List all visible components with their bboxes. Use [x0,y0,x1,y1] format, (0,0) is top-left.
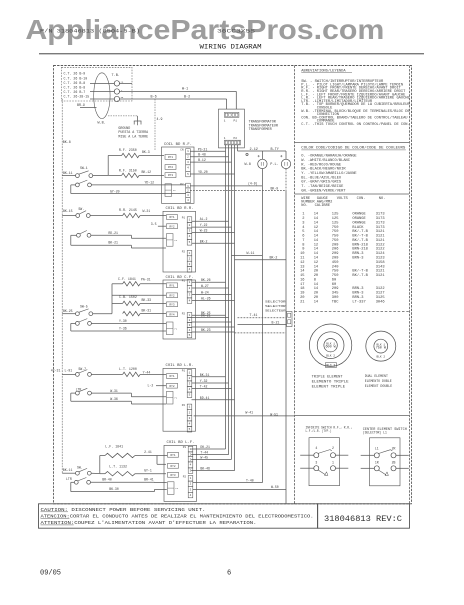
wire L2 feed B-2 [90,98,115,100]
legend panel inner right border [409,66,411,504]
svg-text:RY2: RY2 [169,294,174,297]
svg-text:8: 8 [302,243,304,247]
svg-text:C.T. 26 B-10: C.T. 26 B-10 [64,76,88,80]
wire BR-9 to ellipse [80,107,97,109]
svg-text:BR-40: BR-40 [102,478,112,482]
svg-text:SELECTOR: SELECTOR [265,301,286,304]
svg-text:T. -TAN/BEIGE/BEIGE: T. -TAN/BEIGE/BEIGE [301,184,344,189]
selector connector [287,312,293,327]
svg-text:BK/-T-B: BK/-T-B [352,269,368,274]
svg-text:C.T. 26-28-15: C.T. 26-28-15 [64,94,90,98]
svg-text:BK-31: BK-31 [142,308,152,312]
legend divider 2 [295,193,410,195]
svg-text:SW.: SW. [78,207,84,211]
svg-text:BK-2: BK-2 [270,256,278,260]
svg-text:P2: P2 [182,404,186,407]
svg-text:C.F. 1841: C.F. 1841 [118,277,136,281]
svg-text:(4-9): (4-9) [248,182,258,186]
svg-text:RY3: RY3 [169,303,174,306]
svg-text:LT-337: LT-337 [352,300,365,304]
part number box 318046813 REV:C [318,504,410,528]
svg-text:3122: 3122 [376,243,385,247]
svg-text:2: 2 [302,217,304,221]
svg-text:RY1: RY1 [168,156,173,159]
svg-text:YD-12: YD-12 [145,181,155,185]
wire B-21 to selector [238,324,287,326]
svg-text:6: 6 [227,570,231,578]
svg-text:L1: L1 [375,446,379,450]
svg-text:BK-11: BK-11 [63,468,73,472]
wire L1 feed [90,82,115,84]
svg-text:BK-46: BK-46 [200,467,210,471]
svg-text:L.F./L.R. (TYP.): L.F./L.R. (TYP.) [306,429,332,434]
wire BK-23 dashed to V2 [235,332,287,334]
svg-text:BK/-T-B: BK/-T-B [352,234,368,239]
svg-text:125: 125 [332,217,339,221]
svg-text:T-40: T-40 [246,478,254,482]
svg-text:1: 1 [224,137,226,140]
svg-text:BLK 2: BLK 2 [376,355,385,358]
svg-text:YD-20: YD-20 [198,170,208,174]
svg-text:1: 1 [224,120,226,123]
svg-text:2R: 2R [392,446,396,450]
board C.F. output wires upper [192,281,226,283]
svg-text:GY.-GRAY/GRIS/GRIS: GY.-GRAY/GRIS/GRIS [301,180,342,185]
svg-text:PS-21: PS-21 [198,147,208,151]
svg-text:W-36: W-36 [110,397,118,401]
svg-text:BK-25: BK-25 [63,309,73,313]
svg-text:ATTENTION:COUPEZ L'ALIMENTATIO: ATTENTION:COUPEZ L'ALIMENTATION AVANT D'… [41,521,257,526]
svg-text:C.T. -THIS TOUCH CONTROL ON CO: C.T. -THIS TOUCH CONTROL ON CONTROL/PANE… [301,122,409,127]
svg-text:Y-32: Y-32 [200,379,208,383]
svg-text:7: 7 [302,239,304,243]
svg-text:L.T. 1132: L.T. 1132 [109,464,127,468]
header rule [39,53,424,55]
svg-text:P/N 318046813 (0504-5-B): P/N 318046813 (0504-5-B) [40,29,140,35]
wire W-50 [193,488,287,490]
svg-text:RY2: RY2 [169,385,174,388]
svg-text:BK-2: BK-2 [200,239,208,243]
svg-text:RY2: RY2 [169,225,174,228]
wire W-11 horizontal [232,254,263,256]
svg-text:209: 209 [332,252,339,256]
pilot light P.L. left W-8 [261,151,263,159]
svg-text:LTR: LTR [66,477,72,481]
svg-text:P1: P1 [182,217,186,220]
vertical wire V1 lamp1 drop [261,186,263,483]
svg-text:750 W: 750 W [376,346,387,350]
svg-text:C.T. 26 B-8: C.T. 26 B-8 [64,81,86,85]
svg-text:L.F. 1841: L.F. 1841 [105,445,123,449]
svg-text:P1: P1 [234,120,238,123]
svg-text:P1: P1 [183,446,187,449]
cable bundle ellipse [94,73,110,119]
svg-text:COIL BD L.R.: COIL BD L.R. [166,364,194,368]
main schematic frame [54,66,412,504]
svg-text:BK-21: BK-21 [108,241,118,245]
svg-text:W. -WHITE/BLANCO/BLANC: W. -WHITE/BLANCO/BLANC [301,158,350,163]
svg-text:RY1: RY1 [170,454,175,457]
svg-text:BLK 3: BLK 3 [327,364,336,367]
svg-text:B-TY: B-TY [271,148,280,152]
svg-text:AL-2: AL-2 [200,217,208,221]
svg-text:PA-31: PA-31 [141,277,151,281]
svg-text:125: 125 [332,221,339,225]
svg-text:RD-21: RD-21 [108,231,118,235]
svg-text:WIRING DIAGRAM: WIRING DIAGRAM [200,43,262,51]
svg-text:P2: P2 [182,312,186,315]
svg-text:R.F. 2350: R.F. 2350 [119,148,137,152]
svg-text:318046813 REV:C: 318046813 REV:C [324,515,402,524]
svg-text:750: 750 [332,230,339,234]
svg-text:RY1: RY1 [169,284,174,287]
svg-text:BLACK: BLACK [352,226,364,230]
left bus wire BK-8 [61,99,63,474]
svg-text:B-12: B-12 [198,158,206,162]
svg-text:DK-21: DK-21 [200,445,210,449]
svg-text:P1: P1 [182,279,186,282]
stub 3-5 to RY2 [158,225,166,227]
transformer U1 box [219,109,245,148]
legend panel left border [294,66,296,504]
svg-text:RY2: RY2 [168,166,173,169]
svg-text:C.T. 26 B-8: C.T. 26 B-8 [64,85,86,89]
wire W-41 long [194,415,294,417]
svg-text:600 W: 600 W [326,346,337,350]
svg-text:SELECTOR: SELECTOR [265,305,286,308]
svg-text:36CC3X5S: 36CC3X5S [217,29,255,35]
dual element circles [366,331,396,361]
svg-text:BL.-BLUE/AZUL/BLEU: BL.-BLUE/AZUL/BLEU [301,175,341,180]
svg-text:BRN-218: BRN-218 [352,243,368,247]
svg-text:BK-15: BK-15 [63,209,73,213]
svg-text:L-2: L-2 [148,384,154,388]
svg-text:Y-36: Y-36 [119,327,127,331]
svg-text:(SELECTOR) L1: (SELECTOR) L1 [363,430,387,435]
svg-text:W-27: W-27 [201,284,209,288]
svg-text:BK-8: BK-8 [63,140,71,144]
svg-text:12: 12 [314,226,318,230]
svg-text:09/05: 09/05 [40,570,61,578]
svg-text:1: 1 [332,461,334,465]
svg-text:14: 14 [314,235,319,239]
svg-text:750: 750 [332,235,339,239]
switch SW-1 lower contacts [76,183,80,187]
ground lead wire [108,115,138,117]
svg-text:9: 9 [302,248,304,252]
svg-text:T-42: T-42 [200,385,208,389]
svg-text:W-8: W-8 [245,163,251,167]
svg-text:4C-31: 4C-31 [51,369,61,373]
svg-text:RY1: RY1 [169,375,174,378]
svg-text:3: 3 [302,221,304,225]
svg-text:BK/-T-B: BK/-T-B [352,238,368,243]
svg-text:14: 14 [314,252,319,256]
svg-text:T-44: T-44 [200,451,208,455]
wire 4-9 dashed drop [154,99,156,151]
svg-text:W-45: W-45 [200,455,208,459]
wire BK-2 horizontal [235,259,287,261]
svg-text:BLK 2: BLK 2 [326,354,335,357]
svg-text:750: 750 [332,226,339,230]
svg-text:BK-3: BK-3 [142,150,150,154]
svg-text:3122: 3122 [376,248,385,252]
board L.R. output wires [192,376,226,378]
pilot light left drop wire [261,169,263,186]
svg-text:W-50: W-50 [271,485,279,489]
svg-text:6: 6 [302,235,304,239]
svg-text:COIL BD C.F.: COIL BD C.F. [166,276,194,280]
svg-text:L.T. 1200: L.T. 1200 [119,367,137,371]
svg-text:ELEMENTO TRIPLE: ELEMENTO TRIPLE [312,380,349,384]
svg-text:P.L.: P.L. [270,163,278,167]
svg-text:GY-1: GY-1 [144,469,152,473]
svg-text:W-41: W-41 [245,410,253,414]
svg-text:R. -RED/ROJO/ROUGE: R. -RED/ROJO/ROUGE [301,162,342,167]
ground symbol [134,120,142,122]
board R.R. output wires [192,220,229,222]
svg-text:C.T. 26 B-7: C.T. 26 B-7 [64,90,86,94]
svg-text:3-5: 3-5 [151,222,157,226]
wire T-40 [193,482,263,484]
svg-text:12: 12 [314,243,318,247]
junction screw [246,153,248,155]
terminal block screws [114,81,119,86]
elbow L.F. [99,456,101,474]
wire T-41 to selector [238,317,287,319]
svg-text:C.T. 26 B-9: C.T. 26 B-9 [64,72,86,76]
svg-text:BK-9: BK-9 [271,186,279,190]
svg-text:RY2: RY2 [170,465,175,468]
svg-text:C.B. 1502: C.B. 1502 [119,295,137,299]
board R.F. output wires [190,150,226,152]
svg-text:14: 14 [314,221,319,225]
svg-text:MISE A LA TERRE: MISE A LA TERRE [118,135,148,139]
legend divider 4 [295,415,410,417]
svg-text:4-9: 4-9 [157,117,163,121]
svg-text:TRIPLE ELEMENT: TRIPLE ELEMENT [312,374,343,378]
elbow C.F. 1 [111,284,113,314]
svg-text:BR-41: BR-41 [144,478,154,482]
svg-text:Y. -YELLOW/AMARILLO/JAUNE: Y. -YELLOW/AMARILLO/JAUNE [301,171,357,176]
svg-text:SW-5: SW-5 [80,304,88,308]
split to RY2 L.F. [156,456,158,465]
svg-text:ORANGE: ORANGE [352,221,366,225]
wire N feed W-1 [90,91,115,93]
svg-text:RY3: RY3 [168,174,173,177]
svg-text:W-24: W-24 [201,291,209,295]
svg-text:P2: P2 [182,250,186,253]
svg-text:2B: 2B [392,461,396,465]
svg-text:BK/-T-B: BK/-T-B [352,229,368,234]
transformer primary connector P1 [224,112,239,117]
svg-text:10: 10 [300,252,304,256]
svg-text:ELEMENT DOUBLE: ELEMENT DOUBLE [365,384,393,388]
svg-text:5: 5 [302,230,304,234]
svg-text:W-11: W-11 [247,251,255,255]
svg-text:ELEMENTO DOBLE: ELEMENTO DOBLE [365,379,392,383]
svg-text:R.F. 3150: R.F. 3150 [119,168,137,172]
svg-text:W-51: W-51 [270,412,278,416]
svg-text:B-6: B-6 [151,96,157,100]
switch SW-5 lower contacts [76,322,80,326]
svg-text:DUAL ELEMENT: DUAL ELEMENT [365,374,388,378]
legend divider 1 [295,142,410,144]
triple element circles [309,324,351,366]
svg-text:W.B.: W.B. [98,122,106,126]
svg-text:BR-9: BR-9 [77,103,85,107]
svg-text:BK-31: BK-31 [200,373,210,377]
svg-text:2: 2 [332,446,334,450]
svg-text:T.B.: T.B. [112,74,120,78]
svg-text:L-91: L-91 [65,369,73,373]
svg-text:GROUND: GROUND [118,126,130,130]
pilot light right drop wire [285,169,287,191]
svg-text:COIL BD R.F.: COIL BD R.F. [164,143,192,147]
svg-text:3173: 3173 [376,226,385,230]
svg-text:BRN-218: BRN-218 [352,248,368,252]
legend divider 3 dashed [295,311,410,313]
cable tie dashed box [62,67,133,101]
svg-text:ATENCION:CORTAR EL CONDUCTO AN: ATENCION:CORTAR EL CONDUCTO ANTES DE REA… [41,514,314,519]
svg-text:3121: 3121 [376,230,386,234]
stub L-2 to RY2 [156,385,166,387]
svg-text:3124: 3124 [376,252,386,256]
svg-text:BK/-T-B: BK/-T-B [352,273,368,278]
svg-text:1R: 1R [375,461,379,465]
svg-text:14: 14 [314,248,319,252]
svg-text:RY3: RY3 [170,474,175,477]
svg-text:BK-33: BK-33 [142,298,152,302]
svg-text:14: 14 [314,230,319,234]
caution box [39,504,318,528]
svg-text:750: 750 [332,239,339,243]
svg-text:2-12: 2-12 [250,148,258,152]
svg-text:R.R. 2145: R.R. 2145 [119,208,137,212]
svg-text:P2: P2 [234,137,238,140]
svg-text:P1: P1 [182,370,186,373]
svg-text:BK-23: BK-23 [201,328,211,332]
svg-text:W-23: W-23 [200,229,208,233]
svg-text:209: 209 [332,243,339,247]
svg-text:W-1: W-1 [182,88,188,92]
svg-text:RY1: RY1 [169,216,174,219]
svg-text:Y-44: Y-44 [143,371,151,375]
svg-text:PUESTA A TIERRA: PUESTA A TIERRA [118,130,148,134]
svg-text:3121: 3121 [376,235,386,239]
svg-text:DK-21: DK-21 [201,313,211,317]
svg-text:B-2: B-2 [184,96,190,100]
svg-text:SW-1: SW-1 [80,166,88,170]
svg-text:W-31: W-31 [110,389,118,393]
svg-text:O. -ORANGE/NARANJA/ORANGE: O. -ORANGE/NARANJA/ORANGE [301,154,357,159]
svg-text:TRANSFORMER: TRANSFORMER [249,128,273,132]
board C.F. output wires lower [192,314,226,316]
svg-text:COIL BD L.F.: COIL BD L.F. [167,441,195,445]
svg-text:B-48: B-48 [198,153,206,157]
plus mark right lamp [280,155,282,157]
svg-text:BK-30: BK-30 [109,487,119,491]
svg-text:RY4: RY4 [169,313,174,316]
svg-text:GY-20: GY-20 [110,189,120,193]
svg-text:14: 14 [314,300,319,304]
svg-text:2-41: 2-41 [144,450,152,454]
svg-text:206: 206 [332,248,339,252]
wire to pilot light 1 [190,185,262,187]
svg-text:BK.-BLACK/NEGRO/NOIR: BK.-BLACK/NEGRO/NOIR [301,167,346,172]
svg-text:3: 3 [315,461,317,465]
vertical wire V2 lamp2 drop [285,191,287,504]
svg-text:14: 14 [314,239,319,243]
svg-text:CAUTION: DISCONNECT POWER BEFO: CAUTION: DISCONNECT POWER BEFORE SERVICI… [41,508,206,513]
elbow R.F. [107,156,109,176]
svg-text:ORANGE: ORANGE [352,217,366,221]
svg-text:BRN-3: BRN-3 [352,257,363,261]
svg-text:3121: 3121 [376,239,386,243]
svg-text:21: 21 [300,300,305,304]
pilot light P.L. right [285,151,287,159]
svg-text:BRN-3: BRN-3 [352,252,363,256]
svg-text:BD-41: BD-41 [200,396,210,400]
wire to RY2 C.F. [112,294,166,296]
svg-text:Y-22: Y-22 [200,223,208,227]
svg-text:B-21: B-21 [272,320,280,324]
svg-text:P2: P2 [183,475,187,478]
selector switch detail box [370,438,401,486]
svg-text:COIL BD R.R.: COIL BD R.R. [166,207,194,211]
wire to pilot light 2 [190,190,286,192]
svg-text:T-41: T-41 [250,313,258,317]
svg-text:TBC: TBC [332,300,339,304]
svg-text:BK-12: BK-12 [142,170,152,174]
svg-text:BK-26: BK-26 [201,278,211,282]
svg-text:3173: 3173 [376,217,385,221]
svg-text:W-21: W-21 [143,209,151,213]
svg-text:SELECTEUR: SELECTEUR [265,310,286,313]
svg-text:AL-26: AL-26 [201,297,211,301]
svg-text:3121: 3121 [376,274,386,278]
svg-text:ELEMENT TRIPLE: ELEMENT TRIPLE [312,385,346,389]
infinite switch detail box [309,438,340,486]
svg-text:3173: 3173 [376,221,385,225]
svg-text:GN.-GREEN/VERDE/VERT: GN.-GREEN/VERDE/VERT [301,188,346,193]
svg-text:NO. CALIBRE: NO. CALIBRE [301,204,331,208]
svg-text:Y-30: Y-30 [119,319,127,323]
resistor C.F. 1800 element [123,311,141,315]
wire bundle verticals [225,145,227,449]
svg-text:BK-11: BK-11 [63,171,73,175]
switch SW-2 lower contacts [77,233,81,237]
svg-text:SW.: SW. [77,466,83,470]
svg-text:CN: CN [180,149,184,152]
plus mark left lamp [258,155,260,157]
svg-text:14: 14 [314,217,319,221]
svg-text:3046: 3046 [376,300,385,304]
pilot light feed wire [237,145,239,151]
svg-text:4: 4 [315,446,317,450]
